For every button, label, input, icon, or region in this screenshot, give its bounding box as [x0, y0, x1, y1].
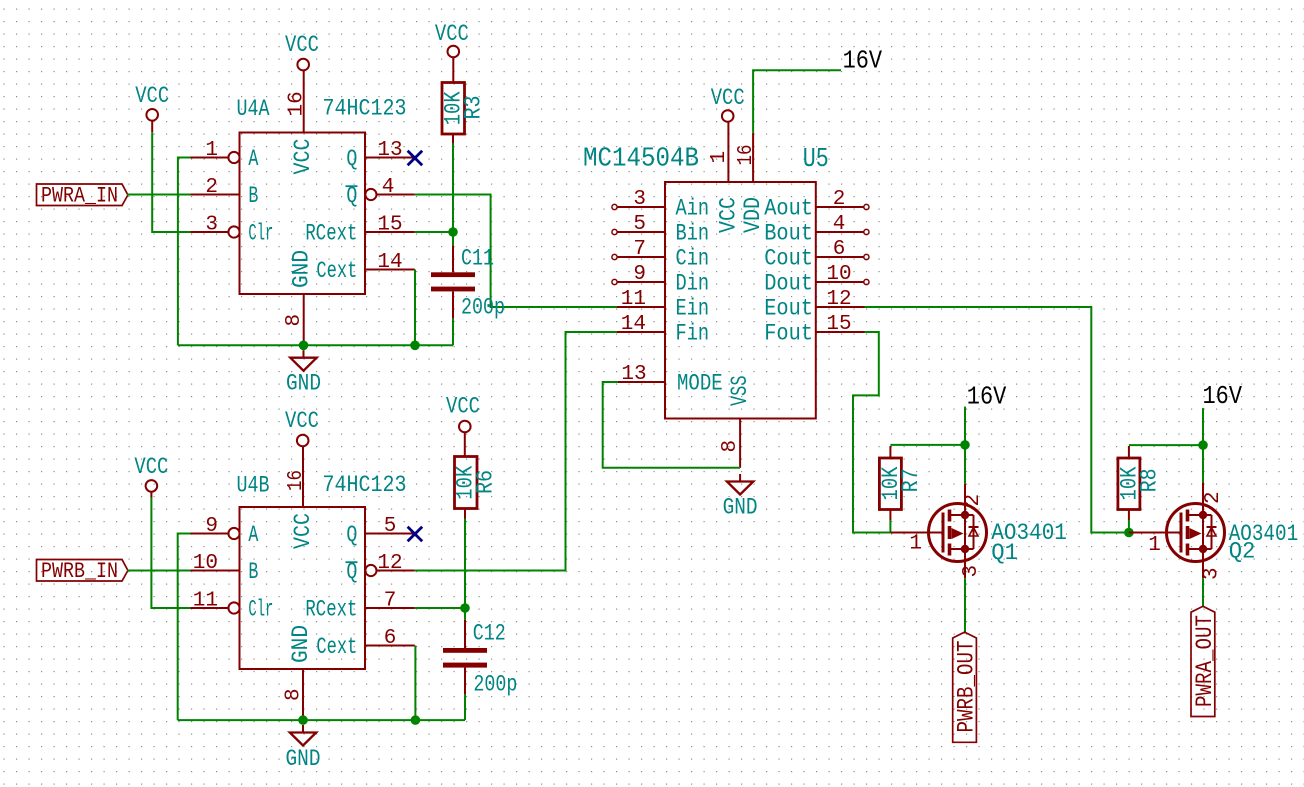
svg-text:8: 8	[283, 314, 306, 327]
U4A pin 4 (Qbar, inverted)	[346, 176, 415, 209]
U5 pin 6 (Cout)	[764, 238, 869, 271]
svg-text:200p: 200p	[473, 672, 517, 698]
wire Q2 source to PWRA_OUT	[1202, 578, 1204, 606]
wire PWRA_IN to U4A B	[127, 194, 190, 196]
svg-text:16V: 16V	[967, 381, 1007, 411]
wire U4A RCext to R3/C11	[415, 231, 453, 233]
svg-text:GND: GND	[723, 495, 758, 521]
Q2 pin 1 number	[1148, 534, 1161, 557]
U5 pin 13 (MODE)	[618, 363, 723, 397]
U4B pin 9 (A, inverted)	[191, 515, 259, 548]
wire C11 to GND bus	[452, 318, 454, 345]
svg-text:Ain: Ain	[676, 195, 710, 221]
svg-text:RCext: RCext	[305, 220, 357, 246]
R3 value 10K	[441, 91, 467, 125]
svg-text:PWRA_OUT: PWRA_OUT	[1192, 615, 1218, 707]
svg-text:Aout: Aout	[764, 195, 813, 221]
svg-text:Eout: Eout	[764, 295, 813, 321]
no-connect X at U4A pin 13	[408, 151, 423, 166]
R8 value 10K	[1116, 466, 1142, 500]
U4B reference U4B	[237, 473, 270, 499]
R6 reference R6	[473, 470, 499, 494]
svg-text:16V: 16V	[1203, 381, 1243, 411]
wire GND bus (U4A)	[178, 344, 453, 346]
svg-text:16: 16	[735, 145, 758, 166]
U5 pin 14 (Fin)	[617, 313, 709, 346]
wire R6 to RCext junction	[464, 509, 466, 620]
power VCC (above R3)	[435, 21, 469, 83]
svg-text:5: 5	[633, 213, 646, 236]
svg-text:PWRB_OUT: PWRB_OUT	[954, 641, 980, 733]
svg-text:Fout: Fout	[764, 320, 813, 346]
junction at Cext wire / bus	[410, 341, 420, 351]
wire U4B Qbar to U5 Fin	[415, 332, 617, 571]
junction at R7 top / 16V	[960, 440, 970, 450]
U5 pin 5 (Bin)	[612, 213, 709, 246]
power VCC (above R6)	[446, 394, 480, 457]
svg-text:R3: R3	[461, 96, 487, 120]
resistor R7 body	[879, 446, 901, 520]
svg-text:R6: R6	[473, 470, 499, 494]
global label PWRB_IN	[37, 559, 128, 584]
junction at RCext/R6/C12	[460, 603, 470, 613]
svg-text:GND: GND	[286, 371, 321, 397]
wire VCC to U4A Clr	[152, 132, 190, 232]
svg-text:Clr: Clr	[248, 596, 273, 622]
wire 16V to R8 top	[1129, 444, 1203, 446]
R8 reference R8	[1137, 468, 1163, 492]
no-connect X at U4B pin 5	[408, 527, 423, 542]
Q1 pin 3 number	[960, 565, 983, 578]
R7 reference R7	[898, 468, 924, 492]
C11 value 200p	[461, 294, 505, 320]
svg-text:3: 3	[205, 214, 218, 237]
power VCC (left of U4A)	[135, 83, 169, 132]
svg-text:200p: 200p	[461, 294, 505, 320]
Q1 pin 1 number	[909, 533, 922, 556]
svg-text:6: 6	[384, 627, 397, 650]
global label PWRB_OUT	[953, 632, 980, 742]
U4B pin 10 (B)	[191, 552, 259, 585]
net label 16V (top)	[843, 46, 883, 76]
junction at U4B Cext wire / bus	[411, 715, 421, 725]
wire 16V to R7 top	[890, 444, 965, 446]
svg-text:14: 14	[621, 313, 646, 336]
U5 pin 1 (VCC) with power VCC	[708, 85, 745, 233]
svg-text:2: 2	[1202, 491, 1225, 504]
U5 pin 12 (Eout)	[764, 288, 864, 321]
svg-text:13: 13	[621, 363, 646, 386]
svg-text:11: 11	[621, 288, 646, 311]
U4B pin 11 (Clr, inverted)	[191, 590, 274, 623]
svg-text:12: 12	[826, 288, 851, 311]
U5 pin 7 (Cin)	[612, 238, 709, 271]
svg-text:10: 10	[193, 552, 218, 575]
svg-text:Cout: Cout	[764, 245, 813, 271]
svg-text:Fin: Fin	[676, 320, 710, 346]
svg-text:4: 4	[833, 213, 846, 236]
svg-text:VCC: VCC	[435, 21, 469, 47]
svg-text:VCC: VCC	[290, 513, 316, 549]
wire R7 bottom to gate wire	[889, 520, 891, 533]
IC U4B 74HC123 body	[240, 507, 366, 669]
svg-text:15: 15	[826, 313, 851, 336]
IC U4A 74HC123 body	[240, 133, 366, 295]
svg-text:1: 1	[909, 533, 922, 556]
C12 reference C12	[473, 620, 506, 646]
wire U5 VDD to 16V	[753, 70, 841, 133]
R7 value 10K	[878, 466, 904, 500]
U5 pin 10 (Dout)	[764, 263, 869, 296]
junction at R8 bottom / Q2 gate	[1124, 528, 1134, 538]
svg-text:A: A	[248, 522, 258, 548]
C11 reference C11	[461, 245, 494, 271]
junction at U4B pin 8 / bus	[298, 715, 308, 725]
svg-text:R8: R8	[1137, 468, 1163, 492]
Q1 value AO3401	[991, 520, 1067, 546]
junction at U4A pin 8 / bus	[299, 341, 309, 351]
resistor R8 body	[1118, 446, 1140, 520]
svg-text:Q1: Q1	[991, 540, 1018, 566]
U4B pin 5 (Q)	[346, 515, 414, 548]
svg-text:3: 3	[633, 188, 646, 211]
svg-text:Q: Q	[346, 146, 357, 172]
svg-text:MC14504B: MC14504B	[583, 144, 699, 174]
svg-text:4: 4	[382, 176, 395, 199]
U5 reference U5	[803, 145, 829, 175]
U4B value 74HC123	[323, 472, 407, 498]
svg-text:VCC: VCC	[715, 197, 741, 233]
wire GND bus (U4B)	[178, 719, 465, 721]
ground symbol GND (U5)	[723, 474, 758, 521]
U4A pin 14 (Cext)	[316, 251, 414, 284]
capacitor C12	[443, 620, 487, 695]
svg-text:Cin: Cin	[676, 245, 710, 271]
U4A pin 8 (GND)	[283, 250, 315, 345]
svg-text:R7: R7	[898, 468, 924, 492]
IC U5 MC14504B body	[665, 182, 816, 419]
svg-text:U4A: U4A	[237, 96, 270, 122]
svg-text:Cext: Cext	[316, 634, 357, 660]
svg-text:GND: GND	[289, 250, 315, 288]
svg-text:9: 9	[633, 263, 646, 286]
svg-text:8: 8	[283, 688, 306, 701]
wire Q1 source to PWRB_OUT	[964, 578, 966, 632]
Q1 pin 2 number	[962, 494, 985, 507]
svg-text:74HC123: 74HC123	[323, 96, 407, 122]
U5 pin 11 (Ein)	[617, 288, 709, 321]
svg-text:16V: 16V	[843, 46, 883, 76]
wire U4A Qbar to U5 Ein	[415, 195, 617, 308]
wire U4B RCext to R6/C12	[415, 607, 465, 609]
svg-text:Bin: Bin	[676, 220, 710, 246]
svg-text:VCC: VCC	[135, 83, 169, 109]
wire C12 to GND bus	[464, 694, 466, 720]
U5 pin 16 (VDD)	[735, 133, 766, 233]
svg-text:Din: Din	[676, 270, 710, 296]
svg-text:13: 13	[377, 139, 402, 162]
U4A pin 1 (A, inverted)	[191, 139, 259, 172]
U5 value MC14504B	[583, 144, 699, 174]
Q1 reference Q1	[991, 540, 1018, 566]
svg-text:PWRA_IN: PWRA_IN	[41, 184, 118, 209]
U5 pin 4 (Bout)	[764, 213, 869, 246]
wire R8 bottom to gate junction	[1128, 520, 1130, 533]
wire U4B A to GND bus	[178, 534, 191, 721]
U5 pin 2 (Aout)	[764, 188, 869, 221]
svg-text:9: 9	[205, 515, 218, 538]
wire U4A A to GND bus	[178, 158, 191, 346]
svg-text:VCC: VCC	[446, 394, 480, 420]
wire U4B Cext to bus	[414, 646, 416, 721]
power VCC rail 16V (Q1)	[965, 381, 1007, 483]
Q2 reference Q2	[1229, 539, 1256, 565]
svg-text:RCext: RCext	[305, 596, 357, 622]
global label PWRA_IN	[37, 184, 128, 209]
U4B pin 12 (Qbar, inverted)	[346, 552, 415, 585]
junction at RCext/R3/C11	[448, 227, 458, 237]
svg-text:5: 5	[384, 515, 397, 538]
svg-text:8: 8	[719, 440, 742, 453]
svg-text:VCC: VCC	[285, 32, 319, 58]
svg-text:16: 16	[286, 91, 309, 116]
svg-text:1: 1	[708, 151, 731, 164]
svg-text:74HC123: 74HC123	[323, 472, 407, 498]
resistor R6 body	[455, 457, 478, 509]
Q2 value AO3401	[1229, 521, 1299, 547]
U4A pin 13 (Q)	[346, 139, 414, 172]
svg-text:U5: U5	[803, 145, 829, 175]
power VCC (left of U4B)	[134, 454, 168, 497]
svg-text:VCC: VCC	[134, 454, 168, 480]
svg-text:Q2: Q2	[1229, 539, 1256, 565]
svg-text:3: 3	[1201, 567, 1224, 580]
U4B pin 8 (GND)	[283, 625, 315, 720]
svg-text:15: 15	[377, 214, 402, 237]
U4A reference U4A	[237, 96, 270, 122]
U4B pin 16 (VCC) with power VCC	[285, 408, 319, 549]
svg-text:7: 7	[384, 590, 397, 613]
svg-text:B: B	[248, 559, 258, 585]
C12 value 200p	[473, 672, 517, 698]
svg-text:14: 14	[377, 251, 402, 274]
svg-text:B: B	[248, 183, 258, 209]
U4B pin 7 (RCext)	[305, 590, 414, 623]
svg-text:Ein: Ein	[676, 295, 710, 321]
svg-text:VCC: VCC	[711, 85, 745, 111]
svg-text:GND: GND	[288, 625, 314, 663]
svg-text:2: 2	[833, 188, 846, 211]
U4A pin 16 (VCC) with power VCC	[285, 32, 319, 174]
svg-text:Dout: Dout	[764, 270, 813, 296]
R3 reference R3	[461, 96, 487, 120]
wire R3 to RCext junction	[452, 134, 454, 245]
junction at R8 top / 16V	[1198, 440, 1208, 450]
U4A value 74HC123	[323, 96, 407, 122]
U4A pin 15 (RCext)	[305, 214, 414, 247]
resistor R3 body	[442, 83, 465, 135]
U5 pin 8 (VSS)	[719, 376, 753, 468]
Q2 pin 2 number	[1202, 491, 1225, 504]
U4A pin 2 (B)	[191, 176, 259, 209]
U5 pin 15 (Fout)	[764, 313, 864, 346]
svg-text:U4B: U4B	[237, 473, 270, 499]
svg-text:Clr: Clr	[248, 220, 273, 246]
svg-text:A: A	[248, 146, 258, 172]
transistor Q1 AO3401	[890, 484, 986, 579]
svg-text:GND: GND	[286, 746, 321, 772]
wire PWRB_IN to U4B B	[127, 570, 190, 572]
svg-text:2: 2	[962, 494, 985, 507]
svg-text:16: 16	[285, 470, 308, 491]
svg-text:1: 1	[205, 139, 218, 162]
svg-text:11: 11	[193, 590, 218, 613]
wire U4A Cext to bus	[414, 270, 416, 346]
U4A pin 3 (Clr, inverted)	[191, 214, 274, 247]
svg-text:VCC: VCC	[285, 408, 319, 434]
svg-text:Q: Q	[346, 522, 357, 548]
svg-text:12: 12	[377, 552, 402, 575]
svg-text:1: 1	[1148, 534, 1161, 557]
wire U5 Eout to Q2 gate	[865, 307, 1129, 533]
ground symbol GND (U4B)	[286, 725, 321, 772]
transistor Q2 AO3401	[1129, 482, 1225, 578]
U5 pin 3 (Ain)	[612, 188, 709, 221]
svg-text:PWRB_IN: PWRB_IN	[41, 559, 118, 584]
svg-text:VDD: VDD	[740, 197, 766, 233]
power VCC rail 16V (Q2)	[1203, 381, 1243, 482]
svg-text:Cext: Cext	[316, 258, 357, 284]
svg-text:C12: C12	[473, 620, 506, 646]
svg-text:2: 2	[205, 176, 218, 199]
wire U5 MODE to VSS/GND	[603, 382, 740, 468]
U4B pin 6 (Cext)	[316, 627, 414, 660]
wire VCC to U4B Clr	[151, 498, 190, 609]
svg-text:10: 10	[826, 263, 851, 286]
svg-text:VSS: VSS	[727, 376, 753, 407]
svg-text:Bout: Bout	[764, 220, 813, 246]
svg-text:VCC: VCC	[290, 139, 316, 175]
svg-text:7: 7	[633, 238, 646, 261]
Q2 pin 3 number	[1201, 567, 1224, 580]
ground symbol GND (U4A)	[286, 350, 321, 396]
capacitor C11	[431, 245, 475, 318]
svg-text:6: 6	[833, 238, 846, 261]
global label PWRA_OUT	[1191, 606, 1218, 716]
svg-text:C11: C11	[461, 245, 494, 271]
svg-text:MODE: MODE	[677, 371, 723, 397]
wire U5 Fout to Q1 gate	[853, 332, 890, 533]
svg-text:3: 3	[960, 565, 983, 578]
U5 pin 9 (Din)	[612, 263, 709, 296]
R6 value 10K	[453, 466, 479, 500]
